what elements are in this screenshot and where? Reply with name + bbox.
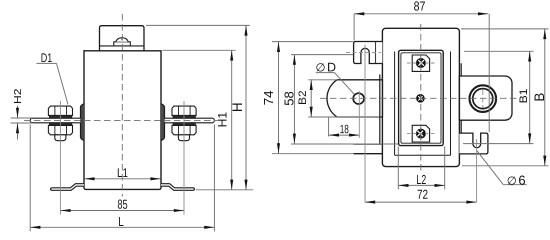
cover screw dome [116,38,128,42]
dim L extension lines [29,125,31,232]
svg-text:L2: L2 [416,172,426,187]
dim D1 label [37,62,57,64]
cover screw slot [121,37,123,40]
dim phi-6 leader [477,151,503,185]
svg-text:72: 72 [417,187,428,202]
centerline left bolt [59,101,61,215]
block parting line [100,45,145,47]
centerline hole / 18 extension [358,91,360,138]
right bolt top nut [172,106,196,115]
right bolt stud end [178,135,189,141]
top-left flange tab [354,42,383,64]
terminal cover block on top [100,26,145,51]
dim 74 extension lines [272,41,353,43]
centerline horizontal (right view) [320,97,519,99]
terminal panel outer [399,50,444,145]
svg-text:∅6: ∅6 [507,173,526,188]
dim 74 line [278,42,280,154]
dim phi-D label [316,72,335,74]
dim H extension lines [146,24,250,26]
svg-text:74: 74 [262,90,276,105]
svg-text:58: 58 [282,91,296,106]
dim L2 extension lines [397,147,399,190]
dim phi-D leader [335,73,355,95]
dim B2 extension lines [308,79,337,81]
dim B1 line [529,51,531,143]
busbar left segment [30,118,80,123]
left bolt bottom washer [49,123,71,126]
recess right line [450,52,452,156]
dim B2 line [310,80,312,117]
dim 72 line [365,201,477,203]
dim D1 leader [57,63,69,104]
left bolt top nut [48,106,72,115]
svg-text:87: 87 [414,0,426,14]
hole D [353,93,364,104]
centerline vertical (right view) [420,24,422,171]
top screw [416,58,426,68]
bottom-right flange tab [459,133,488,154]
right mounting foot [161,184,194,191]
flange tab step line [375,42,377,64]
svg-text:D1: D1 [41,51,53,65]
dim B line [544,29,546,166]
left bolt stud end [55,135,66,141]
svg-text:B: B [532,93,547,102]
svg-text:H2: H2 [13,88,24,104]
centerline horizontal (busbar axis) [24,120,221,122]
dim B extension lines [461,28,549,30]
left bolt top washer [49,115,71,118]
recess bottom line [395,154,451,156]
box left edge through busbar tab [381,80,383,117]
svg-text:H: H [230,102,245,112]
svg-text:B2: B2 [297,90,309,105]
left mounting foot [51,184,84,191]
centerline top-left slot horizontal [346,52,381,54]
middle screw [416,94,425,103]
right boss tab [161,104,165,141]
dim H1 extension line [163,49,236,51]
bottom screw pad [412,125,429,142]
left boss tab [81,104,85,141]
dim 87 extension lines [353,14,355,41]
body (left view) [84,51,161,190]
terminal panel inner [401,53,441,143]
top screw pad [412,55,429,71]
centerline boss circle [482,90,484,108]
busbar right segment [165,118,215,123]
dim 18 extension line [328,117,330,137]
dim H2 extension lines [11,117,33,119]
cover screw plinth [114,42,131,46]
left rim edge [379,75,381,145]
boss inner circle [473,89,493,109]
dim 87 line [354,13,488,15]
dim B1 extension lines [464,50,534,52]
boss outer circle [470,85,497,112]
bottom-left tab bottom edge [354,153,383,155]
svg-text:L: L [118,214,124,229]
dim L2 line [398,184,444,186]
dim L1 line [85,178,161,180]
svg-text:85: 85 [117,197,127,212]
hex boss (right busbar end) [459,76,512,120]
bottom-left tab top edge [354,143,383,145]
box right edge through boss [458,76,460,120]
right bolt bottom washer [173,123,195,126]
dim 58 line [293,55,295,144]
right bolt bottom nut [172,125,196,134]
centerline left slot / 72 extension [364,45,366,203]
centerline vertical (left view) [121,14,123,197]
dim H line [245,25,247,189]
svg-text:H1: H1 [215,112,229,128]
bottom screw [416,129,426,139]
dim 58 extension lines [291,54,353,56]
right rim edge [460,63,462,154]
dim 18 line [329,134,360,136]
dim H2 line [17,106,19,118]
left bolt bottom nut [48,125,72,134]
centerline bottom screw [407,133,435,135]
recess left line [394,52,396,156]
centerline right slot / 72 extension [476,139,478,202]
svg-text:18: 18 [340,122,349,136]
dim H1 line [231,50,233,190]
centerline right bolt [183,101,185,215]
svg-text:B1: B1 [518,88,530,103]
busbar tab with hole (left) [327,80,382,117]
right bolt top washer [173,115,195,118]
dim L line [30,226,214,228]
main box (side view) [382,28,459,166]
centerline top screw [407,62,435,64]
dim 85 line [60,210,184,212]
